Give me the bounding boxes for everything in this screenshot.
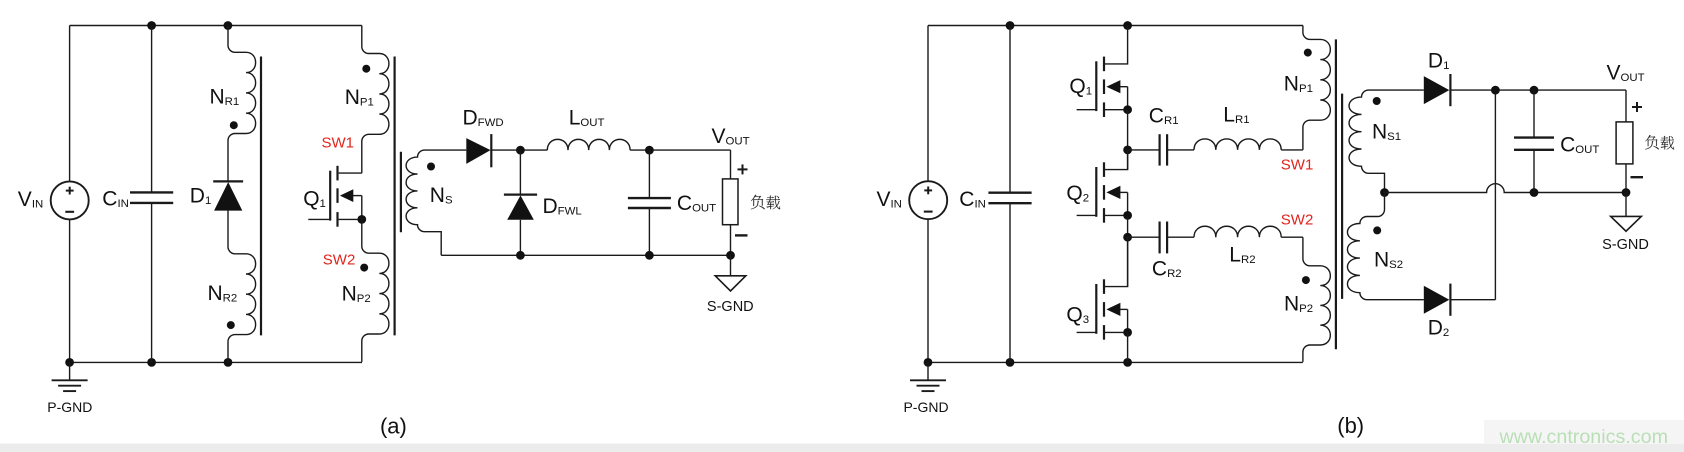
minus sign (b) bbox=[1631, 176, 1644, 178]
svg-text:S-GND: S-GND bbox=[707, 299, 754, 315]
phase dot N_R1 bbox=[230, 121, 238, 129]
label S-GND (a) bbox=[707, 299, 754, 315]
wire top rail (a) bbox=[70, 25, 362, 27]
svg-text:(b): (b) bbox=[1337, 413, 1364, 438]
mosfet Q1 (b) bbox=[1077, 26, 1128, 118]
svg-text:SW1: SW1 bbox=[322, 134, 355, 151]
inductor L_R2 bbox=[1194, 226, 1303, 237]
node C_IN top bbox=[147, 21, 156, 30]
node C_IN bottom bbox=[147, 358, 156, 367]
node D_FWL anode bbox=[516, 251, 525, 260]
diode D1 bbox=[213, 181, 243, 247]
label Q2 (b) bbox=[1066, 182, 1089, 205]
winding N_R2 bbox=[228, 247, 256, 363]
node C_OUT top (b) bbox=[1530, 86, 1539, 95]
label SW2 (a) bbox=[323, 251, 356, 268]
wire load bottom (a) bbox=[730, 225, 732, 256]
mosfet Q1 (a) body arrow bbox=[340, 189, 362, 202]
label C_OUT (a) bbox=[677, 192, 716, 215]
svg-text:SW2: SW2 bbox=[1281, 211, 1314, 228]
winding N_P2 (b) bbox=[1303, 237, 1330, 362]
plus sign (a) bbox=[738, 164, 748, 174]
label N_P2 (a) bbox=[342, 283, 371, 306]
minus sign (a) bbox=[735, 234, 748, 236]
label SW1 (b) bbox=[1281, 156, 1314, 173]
node C_IN top (b) bbox=[1006, 21, 1015, 30]
label P-GND (a) bbox=[47, 399, 92, 415]
winding N_S2 (b) bbox=[1347, 193, 1423, 300]
label L_R2 bbox=[1229, 244, 1255, 267]
label L_R1 bbox=[1223, 104, 1249, 127]
watermark www.cntronics.com bbox=[1499, 426, 1668, 448]
label D1 (b) bbox=[1428, 50, 1450, 73]
label (b) bbox=[1337, 413, 1364, 438]
phase dot N_S (a) bbox=[427, 163, 435, 171]
label L_OUT bbox=[569, 107, 605, 130]
diode D_FWD bbox=[466, 134, 547, 167]
node C_R1 tap bbox=[1123, 146, 1132, 155]
node C_IN bottom (b) bbox=[1006, 358, 1015, 367]
wire Q2-Q3 link bbox=[1127, 215, 1129, 286]
label D_FWD bbox=[463, 107, 504, 130]
core bar primary (b) bbox=[1335, 39, 1337, 349]
resistor load (b) bbox=[1616, 122, 1633, 164]
label S-GND (b) bbox=[1602, 237, 1649, 253]
capacitor C_IN (b) bbox=[988, 26, 1031, 363]
label D1 bbox=[190, 184, 212, 207]
svg-text:P-GND: P-GND bbox=[903, 399, 948, 415]
label load (b) 负载 bbox=[1645, 135, 1674, 149]
ground P-GND (a) bbox=[52, 362, 88, 391]
wire load bottom (b) bbox=[1625, 164, 1627, 193]
label V_IN (b) bbox=[877, 188, 902, 211]
label N_P1 (b) bbox=[1284, 72, 1313, 95]
wire center tap rail with hop bbox=[1385, 184, 1627, 193]
node Q1 source (a) bbox=[357, 215, 366, 224]
phase dot N_S1 (b) bbox=[1373, 97, 1381, 105]
capacitor C_R1 bbox=[1128, 134, 1194, 165]
svg-text:SW2: SW2 bbox=[323, 251, 356, 268]
label Q1 (b) bbox=[1069, 75, 1092, 98]
core bar secondary (a) bbox=[400, 152, 402, 233]
inductor L_OUT bbox=[547, 139, 730, 150]
label N_S2 (b) bbox=[1374, 249, 1403, 272]
phase dot N_R2 bbox=[227, 321, 235, 329]
svg-text:P-GND: P-GND bbox=[47, 399, 92, 415]
winding N_R1 bbox=[228, 26, 256, 182]
wire V_OUT branch (b) bbox=[1625, 90, 1627, 122]
node N_R1 top bbox=[224, 21, 233, 30]
wire V_OUT branch (a) bbox=[730, 150, 732, 179]
mosfet Q1 (a) gate lead bbox=[308, 218, 330, 220]
wire V_IN bottom lead (b) bbox=[927, 219, 929, 362]
ground S-GND (a) bbox=[715, 255, 746, 291]
capacitor C_OUT (b) bbox=[1514, 90, 1554, 192]
label N_P2 (b) bbox=[1284, 293, 1313, 316]
label Q1 (a) bbox=[303, 188, 326, 211]
node V_IN bottom bbox=[65, 358, 74, 367]
phase dot N_P2 (b) bbox=[1302, 276, 1310, 284]
label load (a) 负载 bbox=[751, 195, 780, 210]
wire top rail (b) bbox=[928, 25, 1303, 27]
node Q3 source bottom (b) bbox=[1123, 358, 1132, 367]
diode D_FWL bbox=[504, 150, 537, 255]
core bar secondary (b) bbox=[1341, 94, 1343, 299]
node C_R2 tap bbox=[1123, 233, 1132, 242]
phase dot N_P2 (a) bbox=[360, 264, 368, 272]
label V_OUT (a) bbox=[712, 125, 750, 148]
wire bottom rail (b) bbox=[928, 361, 1303, 363]
winding N_S1 (b) bbox=[1349, 90, 1424, 192]
node D1 column bottom bbox=[224, 358, 233, 367]
winding N_S (a) bbox=[406, 150, 466, 255]
phase dot N_S2 (b) bbox=[1373, 226, 1381, 234]
wire D2 riser bbox=[1494, 90, 1496, 300]
voltage source V_IN (a) bbox=[51, 181, 89, 219]
node L_OUT output junction bbox=[645, 146, 654, 155]
label N_R1 bbox=[210, 86, 240, 109]
node load bottom (a) bbox=[726, 251, 735, 260]
label Q3 (b) bbox=[1066, 304, 1089, 327]
node Q1 source (b) bbox=[1123, 105, 1132, 114]
winding N_P1 (b) bbox=[1303, 26, 1330, 150]
wire V_IN bottom lead bbox=[69, 219, 71, 362]
label V_IN (a) bbox=[18, 188, 43, 211]
mosfet Q1 (a) channel bar bbox=[336, 166, 338, 227]
capacitor C_R2 bbox=[1128, 222, 1194, 254]
node V_IN bottom (b) bbox=[924, 358, 933, 367]
watermark band bbox=[1484, 420, 1684, 444]
label SW2 (b) bbox=[1281, 211, 1314, 228]
label C_R2 bbox=[1152, 258, 1182, 281]
ground S-GND (b) bbox=[1611, 193, 1642, 232]
label C_IN (b) bbox=[959, 188, 986, 211]
winding N_P1 (a) bbox=[362, 26, 389, 174]
wire Q1-Q2 link bbox=[1127, 110, 1129, 170]
mosfet Q1 (a) source lead bbox=[339, 196, 362, 220]
node C_OUT bottom (b) bbox=[1530, 188, 1539, 197]
phase dot N_P1 (a) bbox=[362, 65, 370, 73]
node center tap bbox=[1380, 188, 1389, 197]
ground P-GND (b) bbox=[910, 362, 946, 391]
label P-GND (b) bbox=[903, 399, 948, 415]
node Q2 source (b) bbox=[1123, 211, 1132, 220]
node D_FWD cathode junction bbox=[516, 146, 525, 155]
wire V_IN top lead (b) bbox=[927, 26, 929, 182]
label N_S1 (b) bbox=[1372, 121, 1401, 144]
voltage source V_IN (b) bbox=[909, 181, 947, 219]
label (a) bbox=[380, 414, 407, 439]
label V_OUT (b) bbox=[1607, 62, 1645, 85]
label C_OUT (b) bbox=[1560, 134, 1599, 157]
svg-text:www.cntronics.com: www.cntronics.com bbox=[1499, 426, 1668, 448]
diode D2 (b) bbox=[1424, 284, 1496, 316]
label C_IN (a) bbox=[102, 187, 129, 210]
mosfet Q1 (a) drain lead bbox=[339, 172, 362, 174]
resistor load (a) bbox=[723, 179, 739, 225]
label D_FWL bbox=[543, 195, 582, 218]
mosfet Q3 (b) bbox=[1077, 237, 1128, 340]
mosfet Q2 (b) bbox=[1077, 150, 1128, 223]
bottom gray strip bbox=[0, 444, 1684, 452]
svg-text:SW1: SW1 bbox=[1281, 156, 1314, 173]
inductor L_R1 bbox=[1194, 139, 1303, 150]
capacitor C_OUT (a) bbox=[628, 150, 671, 255]
svg-text:(a): (a) bbox=[380, 414, 407, 439]
node D1 cathode junction bbox=[1491, 86, 1500, 95]
label C_R1 bbox=[1149, 105, 1179, 128]
plus sign (b) bbox=[1632, 102, 1642, 112]
wire Q3 to rail bbox=[1127, 332, 1129, 362]
label N_S (a) bbox=[430, 184, 453, 207]
label D2 (b) bbox=[1428, 317, 1450, 340]
wire secondary bottom rail (a) bbox=[441, 254, 730, 256]
svg-text:S-GND: S-GND bbox=[1602, 237, 1649, 253]
winding N_P2 (a) bbox=[362, 219, 389, 362]
wire V_IN top lead bbox=[69, 26, 71, 182]
mosfet Q1 (a) gate bar bbox=[329, 171, 331, 221]
node Q1 drain top (b) bbox=[1123, 21, 1132, 30]
node C_OUT bottom (a) bbox=[645, 251, 654, 260]
core bar primary (a) bbox=[394, 57, 396, 336]
capacitor C_IN (a) bbox=[130, 26, 173, 363]
label N_P1 (a) bbox=[345, 86, 374, 109]
diode D1 (b) bbox=[1424, 74, 1626, 106]
phase dot N_P1 (b) bbox=[1304, 49, 1312, 57]
wire bottom rail (a) bbox=[70, 361, 362, 363]
node load bottom (b) bbox=[1622, 188, 1631, 197]
label N_R2 bbox=[208, 282, 238, 305]
node Q3 source (b) inner bbox=[1123, 328, 1132, 337]
label SW1 (a) bbox=[322, 134, 355, 151]
core bar reset winding (a) bbox=[260, 57, 262, 336]
